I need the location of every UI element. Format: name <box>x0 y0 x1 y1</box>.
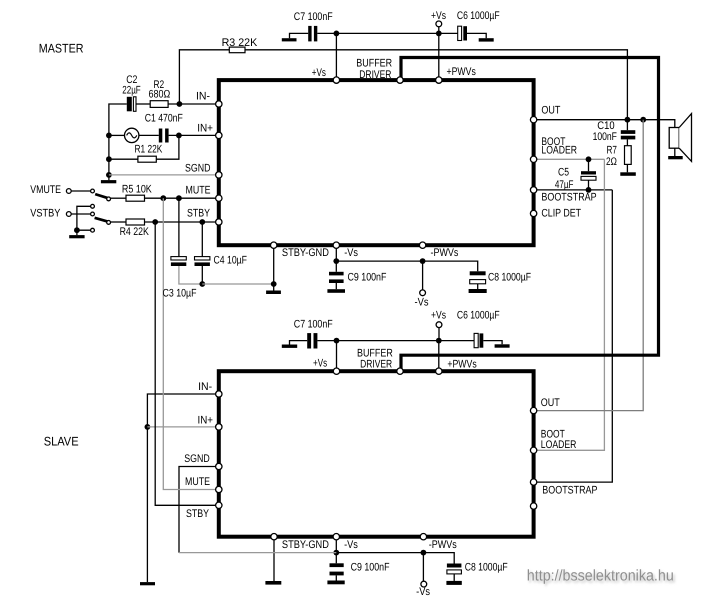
node C (IN+ node junction) <box>176 133 182 139</box>
wire: VSTBY selector vertical with upper/lower contacts <box>77 206 91 235</box>
svg-text:R7: R7 <box>607 145 617 157</box>
svg-text:C7 100nF: C7 100nF <box>294 318 333 330</box>
wire: gray join to STBY-GND vertical <box>202 283 273 285</box>
wire: slave C7 to +Vs node to C6 <box>318 340 475 342</box>
wire: VSTBY terminal to contact <box>71 213 90 215</box>
node B (source/ground vertical junctions) <box>106 133 112 139</box>
terminal VMUTE <box>66 189 71 194</box>
pin OUT (slave) <box>530 407 536 413</box>
svg-text:R4 22K: R4 22K <box>120 226 150 238</box>
svg-text:-Vs: -Vs <box>344 247 358 259</box>
ground (slave C6) <box>495 344 510 347</box>
svg-text:C9 100nF: C9 100nF <box>348 272 387 284</box>
svg-text:VMUTE: VMUTE <box>30 184 61 196</box>
node U (slave IN+ junction) <box>145 424 151 430</box>
wire: slave +Vs node down to pin <box>336 341 338 372</box>
svg-text:LOADER: LOADER <box>541 439 577 451</box>
capacitor C6 (1000uF master) <box>458 26 462 40</box>
pin BOOTSTRAP (slave) <box>530 479 536 485</box>
capacitor C1 (470nF) <box>159 129 163 143</box>
svg-text:2Ω: 2Ω <box>606 156 617 168</box>
ground (master C7) <box>282 38 297 41</box>
node I (+Vs node) <box>334 31 340 37</box>
wire: slave C8 stub to ground <box>453 574 455 581</box>
node E (VSTBY ground junction) <box>74 227 80 233</box>
pin IN- (master) <box>216 101 222 107</box>
svg-text:+Vs: +Vs <box>312 67 326 79</box>
svg-text:-PWVs: -PWVs <box>429 539 457 551</box>
wire: +Vs node down to +Vs pin <box>335 33 337 80</box>
pin MUTE (master) <box>216 195 222 201</box>
pin +PWVs (slave) <box>436 368 442 374</box>
ground (master C8) <box>469 289 487 293</box>
svg-text:IN+: IN+ <box>197 122 213 134</box>
svg-text:C8 1000µF: C8 1000µF <box>465 562 508 574</box>
wire: SGND gray line <box>109 174 219 176</box>
resistor R5 (10K) <box>126 195 145 201</box>
svg-text:OUT: OUT <box>541 105 560 117</box>
svg-text:47µF: 47µF <box>555 179 574 191</box>
pin CLIP DET (slave, unlabeled) <box>530 503 536 509</box>
pin CLIP DET (master) <box>530 210 536 216</box>
ground (master C6) <box>479 38 494 41</box>
svg-text:+PWVs: +PWVs <box>447 359 477 371</box>
pin BOOT LOADER (master) <box>530 156 536 162</box>
wire: R2 to IN- node <box>168 103 219 105</box>
capacitor C8 (1000uF master) <box>470 271 486 275</box>
resistor R3 (22K feedback) <box>229 47 245 53</box>
svg-text:OUT: OUT <box>541 397 560 409</box>
svg-text:680Ω: 680Ω <box>149 89 171 101</box>
wire: R3 right to feedback drop <box>245 50 627 120</box>
svg-text:IN-: IN- <box>196 91 210 103</box>
node J (+PWVs node) <box>436 31 442 37</box>
wire: C2 to R2 <box>136 103 150 105</box>
svg-text:DRIVER: DRIVER <box>360 358 392 370</box>
wire: C6 to ground <box>467 33 486 38</box>
pin STBY-GND (master) <box>271 242 277 248</box>
capacitor C2 (22uF electrolytic) <box>127 97 132 112</box>
wire: C7 ground stub <box>290 33 309 38</box>
node R (slave +PWVs node) <box>436 338 442 344</box>
wire: C3 bottom gray jog to C4 bottom <box>179 266 202 284</box>
svg-text:R3 22K: R3 22K <box>222 37 258 49</box>
svg-text:C5: C5 <box>558 166 569 178</box>
wire: C1 to IN+ pin <box>169 134 219 136</box>
wire: gray link master OUT to slave OUT <box>536 120 644 411</box>
wire: C4 bottom down <box>201 266 203 284</box>
svg-text:C1 470nF: C1 470nF <box>145 113 183 125</box>
capacitor C8 (1000uF slave) <box>447 564 462 568</box>
resistor R2 (680 ohm) <box>150 101 168 108</box>
pin BOOT LOADER (slave) <box>530 447 536 453</box>
svg-text:-Vs: -Vs <box>416 586 430 598</box>
svg-text:VSTBY: VSTBY <box>30 208 61 220</box>
wire: slave C6 to ground <box>483 341 502 345</box>
svg-text:+Vs: +Vs <box>431 309 446 321</box>
node H (STBY-GND ground junction) <box>271 281 277 287</box>
svg-text:MUTE: MUTE <box>185 476 210 488</box>
wire: slave IN+ gray <box>147 426 218 428</box>
pin MUTE (slave) <box>216 486 222 492</box>
speaker LS1 <box>669 128 679 149</box>
svg-text:STBY: STBY <box>187 207 211 219</box>
capacitor C7 (100nF master) <box>308 26 311 42</box>
switch SW1 lever (VMUTE) <box>95 194 108 198</box>
node D (MUTE line junctions) <box>160 195 166 201</box>
svg-text:C4 10µF: C4 10µF <box>214 255 248 267</box>
wire: OUT to speaker <box>536 120 675 128</box>
svg-text:22µF: 22µF <box>122 85 141 97</box>
svg-text:C9 100nF: C9 100nF <box>351 562 390 574</box>
pin IN+ (slave) <box>216 424 222 430</box>
wire: slave SGND gray join to -Vs node <box>179 552 336 554</box>
svg-text:LOADER: LOADER <box>541 144 577 156</box>
resistor R7 (2 ohm) <box>625 146 632 165</box>
svg-text:SLAVE: SLAVE <box>44 435 79 449</box>
ground (slave C8) <box>446 581 461 585</box>
wire: SW1 pole to R5 <box>111 197 127 199</box>
svg-text:-Vs: -Vs <box>344 539 358 551</box>
svg-text:R5 10K: R5 10K <box>122 183 152 195</box>
svg-text:http://bsselektronika.hu: http://bsselektronika.hu <box>527 568 674 585</box>
capacitor C3 (10uF) <box>171 257 186 260</box>
resistor R4 (22K) <box>126 219 145 225</box>
pin IN- (slave) <box>216 391 222 397</box>
ground (VSTBY) <box>69 235 84 238</box>
wire: gray link master BOOT LOADER to slave BOOT LOADER <box>536 159 605 450</box>
op-amp U2 (SLAVE power amplifier IC) <box>219 371 534 537</box>
wire: C9 stub to ground <box>335 283 337 289</box>
wire: -Vs node to C8 <box>336 261 477 271</box>
pin -Vs (slave) <box>333 534 339 540</box>
wire: STBY-GND pin to ground <box>273 247 275 291</box>
svg-text:C6 1000µF: C6 1000µF <box>457 10 500 22</box>
wire: R4 to STBY pin <box>145 221 219 223</box>
svg-text:C7 100nF: C7 100nF <box>294 11 333 23</box>
pin +Vs (master) <box>333 77 339 83</box>
terminal -Vs (slave) <box>421 581 427 587</box>
svg-text:C3 10µF: C3 10µF <box>163 288 197 300</box>
wire: slave C7 ground stub <box>290 341 308 345</box>
wire: +PWVs node down to +PWVs pin <box>438 33 440 80</box>
wire: slave STBY link up to master STBY line <box>155 222 219 505</box>
wire: input node to C2 (master IN- path) <box>109 104 127 180</box>
pin -PWVs (master) <box>419 242 425 248</box>
pin SGND (slave) <box>216 463 222 469</box>
svg-text:MASTER: MASTER <box>39 41 84 55</box>
terminal -Vs (master) <box>420 290 426 296</box>
node F (STBY line junctions) <box>152 219 158 225</box>
svg-text:STBY-GND: STBY-GND <box>282 247 329 259</box>
terminal +Vs (slave) <box>436 322 442 328</box>
svg-text:+Vs: +Vs <box>431 10 446 22</box>
capacitor C5 (47uF) <box>581 171 596 174</box>
ground (master STBY-GND) <box>266 291 281 295</box>
wire: C8 stub to ground <box>477 284 479 289</box>
wire: BOOTSTRAP to link <box>536 189 613 191</box>
svg-text:SGND: SGND <box>185 163 211 175</box>
wire: slave STBY-GND pin to ground <box>273 539 275 581</box>
switch SW2 pole contact <box>107 221 111 225</box>
wire: +Vs terminal stub <box>438 27 440 34</box>
wire: IN- node up to R3 line <box>179 50 229 104</box>
svg-text:BOOTSTRAP: BOOTSTRAP <box>542 485 597 497</box>
wire: -Vs terminal drop <box>422 261 424 290</box>
svg-text:BUFFER: BUFFER <box>356 57 392 69</box>
op-amp U1 (MASTER power amplifier IC) <box>219 80 534 245</box>
ground (master C9) <box>327 289 345 293</box>
wire: slave -Vs node to C8 <box>336 553 454 564</box>
wire: C10 to R7 <box>626 139 628 145</box>
wire: slave -Vs pin down to C9 <box>335 539 337 564</box>
node S (slave -Vs node) <box>333 550 339 556</box>
ground (R7) <box>620 172 636 176</box>
node K (-Vs node) <box>333 258 339 264</box>
wire: source right to C1 <box>139 134 159 136</box>
wire: thick sync bus master BUFFER DRIVER to slave BUFFER DRIVER <box>401 58 659 372</box>
pin -PWVs (slave) <box>420 534 426 540</box>
svg-text:STBY-GND: STBY-GND <box>282 539 329 551</box>
capacitor C9 (100nF slave) <box>330 563 344 567</box>
capacitor C4 (10uF) <box>195 257 210 260</box>
wire: C5 bottom stub <box>588 180 590 190</box>
wire: slave -Vs terminal drop <box>422 553 424 582</box>
switch SW1 pole contact <box>107 197 111 201</box>
wire: link master BOOTSTRAP to slave BOOTSTRAP <box>536 190 613 482</box>
wire: BOOT LOADER gray to link <box>536 158 605 160</box>
wire: STBY line down to C4 <box>201 222 203 257</box>
svg-text:SGND: SGND <box>184 453 210 465</box>
svg-text:IN-: IN- <box>198 381 212 393</box>
wire: MUTE line down to C3 <box>178 198 180 256</box>
node Q (slave +Vs node) <box>334 338 340 344</box>
pin OUT (master) <box>530 117 536 123</box>
svg-text:R1 22K: R1 22K <box>135 143 163 155</box>
node O (C5 top junction) <box>586 156 592 162</box>
ground (slave STBY-GND) <box>265 581 281 585</box>
ground (speaker) <box>668 156 683 159</box>
capacitor C7 (100nF slave) <box>307 333 311 348</box>
pin BOOTSTRAP (master) <box>530 187 536 193</box>
pin -Vs (master) <box>333 242 339 248</box>
terminal +Vs (master) <box>436 21 442 27</box>
pin STBY (slave) <box>216 502 222 508</box>
resistor R1 (22K) <box>138 156 156 162</box>
wire: C10 stub <box>626 120 628 131</box>
node P (C5 bottom junction) <box>586 187 592 193</box>
wire: R1 left <box>109 158 138 160</box>
svg-text:-PWVs: -PWVs <box>431 247 459 259</box>
svg-text:+Vs: +Vs <box>313 358 327 370</box>
wire: R7 to ground <box>626 164 628 172</box>
wire: C7 to +Vs node to C6 <box>317 32 457 34</box>
ground (slave input line) <box>140 582 155 585</box>
wire: source left <box>109 134 125 136</box>
pin STBY (master) <box>216 219 222 225</box>
wire: -Vs pin down <box>335 247 337 272</box>
wire: VMUTE terminal to contact <box>71 190 90 192</box>
ground (slave C7) <box>282 345 297 348</box>
wire: C5 top stub <box>588 159 590 171</box>
svg-text:MUTE: MUTE <box>186 185 211 197</box>
node A (IN- node junction) <box>177 101 183 107</box>
ground (slave C9) <box>327 581 344 585</box>
wire: slave C9 stub to ground <box>335 575 337 580</box>
pin SGND (master) <box>216 172 222 178</box>
pin STBY-GND (slave) <box>271 534 277 540</box>
capacitor C10 (100nF) <box>621 130 636 134</box>
node T (slave -PWVs node) <box>421 550 427 556</box>
pin BUFFER DRIVER (master) <box>397 77 403 83</box>
svg-text:DRIVER: DRIVER <box>359 69 391 81</box>
pin IN+ (master) <box>216 132 222 138</box>
svg-text:STBY: STBY <box>186 508 210 520</box>
ground (master input) <box>101 180 116 183</box>
svg-text:C6 1000µF: C6 1000µF <box>457 309 500 321</box>
wire: speaker to ground <box>674 148 676 156</box>
svg-text:-Vs: -Vs <box>415 297 429 309</box>
wire: R1 right up to IN+ node <box>156 135 179 159</box>
svg-text:CLIP DET: CLIP DET <box>541 208 581 220</box>
terminal VSTBY <box>66 212 71 217</box>
wire: R5 to MUTE pin <box>145 197 219 199</box>
pin +Vs (slave) <box>333 368 339 374</box>
node L (-PWVs node) <box>420 258 426 264</box>
switch SW2 lever (VSTBY) <box>95 218 109 222</box>
node G (C4/C3 ground join) <box>199 281 205 287</box>
wire: slave SGND down <box>179 467 219 553</box>
svg-text:C8 1000µF: C8 1000µF <box>488 272 531 284</box>
pin +PWVs (master) <box>436 77 442 83</box>
signal source V1 <box>125 128 139 142</box>
node N (OUT / slave link junction) <box>640 117 646 123</box>
wire: SW2 pole to R4 <box>111 221 127 223</box>
pin BUFFER DRIVER (slave) <box>397 368 403 374</box>
svg-text:BOOTSTRAP: BOOTSTRAP <box>541 192 596 204</box>
svg-text:IN+: IN+ <box>198 415 214 427</box>
svg-text:100nF: 100nF <box>593 131 618 143</box>
svg-text:+PWVs: +PWVs <box>447 66 477 78</box>
node M (OUT / C10 junction) <box>625 117 631 123</box>
wire: slave +Vs terminal stub <box>438 328 440 341</box>
wire: slave +PWVs node down to pin <box>438 341 440 372</box>
wire: slave MUTE gray link up to master MUTE line <box>163 198 219 489</box>
capacitor C6 (1000uF slave) <box>474 333 478 347</box>
capacitor C9 (100nF master) <box>329 272 344 276</box>
wire: slave IN- to grounded line <box>147 394 218 582</box>
